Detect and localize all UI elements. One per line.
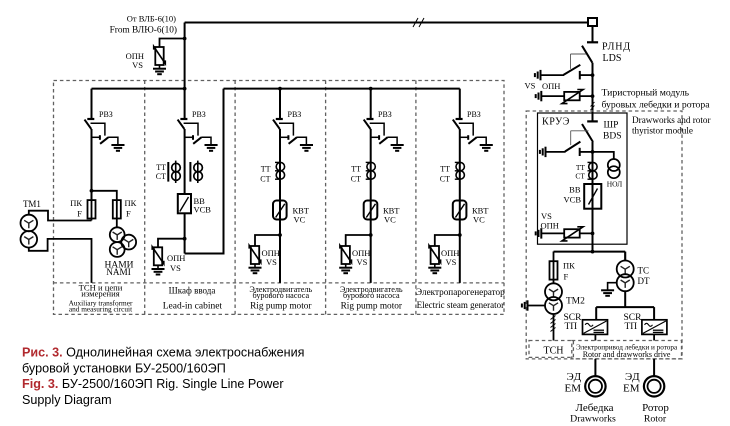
motor ЭД EM (drawworks) xyxy=(585,376,605,396)
svg-text:DT: DT xyxy=(638,276,650,286)
vacuum contactor КВТ VC (steam) xyxy=(453,201,467,220)
label section pump2 xyxy=(340,285,403,312)
node: junction dot arrester tap (steam) xyxy=(458,233,462,237)
svg-text:Drawworks and rotor: Drawworks and rotor xyxy=(632,115,711,125)
wire: to rotor motor xyxy=(653,359,655,376)
surge arrester ОПН VS horizontal (line side) xyxy=(536,90,593,104)
svg-text:СТ: СТ xyxy=(260,175,270,184)
svg-text:From ВЛЮ-6(10): From ВЛЮ-6(10) xyxy=(110,25,177,36)
label РВЗ (TCH) xyxy=(99,110,113,119)
svg-text:КРУЭ: КРУЭ xyxy=(542,117,570,128)
svg-text:ТП: ТП xyxy=(565,322,578,332)
svg-text:ТС: ТС xyxy=(638,266,650,276)
wire: TM1 secondary to measuring circuit xyxy=(29,239,92,283)
svg-text:ТТ: ТТ xyxy=(261,165,271,174)
wire: tap to НОЛ xyxy=(593,152,614,159)
current transformer ТТ СТ (pump2) xyxy=(366,162,376,179)
thyristor module dashed enclosure xyxy=(526,111,682,359)
caption figure text xyxy=(22,346,304,408)
current transformer ТТ СТ (steam) xyxy=(455,162,465,179)
ТСН dashed box xyxy=(529,341,573,358)
current transformer ТТ СТ (КРУЭ) xyxy=(588,162,598,179)
transformer TM1 lower winding xyxy=(21,231,38,248)
transformer ТМ2 upper winding xyxy=(545,283,562,300)
wire: TCH feeder drop xyxy=(91,89,93,200)
svg-text:ПК: ПК xyxy=(70,198,82,208)
fuse ПК F (left, to TM1) xyxy=(88,200,96,218)
svg-text:VC: VC xyxy=(384,215,396,225)
section separator dashed line 3 xyxy=(325,81,327,315)
node: junction dot at arrester tap xyxy=(183,37,187,41)
wire: into ШР switch xyxy=(592,113,594,121)
node: junction dot VCB output / arrester tap xyxy=(183,237,187,241)
label РВЗ (lead-in) xyxy=(192,110,206,119)
wire: earthing switch to main line xyxy=(580,74,593,76)
svg-text:VS: VS xyxy=(170,263,181,273)
wire: branch to fuse 2 xyxy=(92,191,117,200)
wire through fuse2 down to НАМИ xyxy=(116,200,118,228)
wire: tap to lead-in arrester xyxy=(158,239,185,248)
wire: steam feeder line xyxy=(459,89,461,283)
current transformer ТТ СТ (left of line) xyxy=(168,161,180,183)
disconnector РВЗ (TCH feeder) xyxy=(85,119,125,151)
disconnector РВЗ (steam) xyxy=(453,119,493,151)
svg-text:ШР: ШР xyxy=(604,121,619,131)
wire: left branch to fuse xyxy=(553,252,555,284)
svg-text:измерения: измерения xyxy=(81,289,119,299)
КРУЭ switchgear solid box xyxy=(538,113,628,244)
label row dashed line xyxy=(54,282,505,284)
label НОЛ xyxy=(607,180,623,189)
label ТТ СТ (pump2) xyxy=(351,165,361,184)
label ОПН VS (incoming) xyxy=(126,51,144,70)
svg-text:Lead-in cabinet: Lead-in cabinet xyxy=(163,302,223,312)
svg-text:VS: VS xyxy=(132,60,143,70)
svg-text:бурового насоса: бурового насоса xyxy=(343,291,400,300)
svg-text:ПК: ПК xyxy=(563,261,575,271)
wire: DT neutral to ground xyxy=(608,283,617,290)
svg-text:VS: VS xyxy=(525,81,536,91)
wire: main incoming vertical drop xyxy=(184,23,186,89)
voltage transformer НАМИ winding 3 xyxy=(121,235,136,250)
surge arrester ОПН VS (steam) xyxy=(428,245,441,273)
wire: fuse1 to TM1 primary xyxy=(29,211,92,221)
svg-text:СТ: СТ xyxy=(440,175,450,184)
label КВТ VC (steam) xyxy=(472,206,489,225)
wire: lead-in feeder drop xyxy=(184,89,186,194)
label section steam generator xyxy=(416,287,505,310)
wire: earthing contact to main xyxy=(580,151,593,153)
drive label dashed box xyxy=(572,341,682,359)
svg-text:СТ: СТ xyxy=(351,175,361,184)
section separator dashed line 4 xyxy=(415,81,417,315)
ground (side) at ТМ2 xyxy=(522,300,528,310)
svg-text:LDS: LDS xyxy=(603,53,622,64)
label ОПН VS (lead-in) xyxy=(167,253,185,273)
svg-text:and measuring circuit: and measuring circuit xyxy=(69,305,132,314)
node: junction dot arrester tap (pump1) xyxy=(278,233,282,237)
label section pump1 xyxy=(249,285,312,312)
svg-text:VCB: VCB xyxy=(194,205,212,215)
label ТТ СТ (steam) xyxy=(440,165,450,184)
label РЛНД LDS xyxy=(602,42,631,65)
ground (side) for ШР earthing switch xyxy=(540,147,546,157)
transformer ТС DT upper winding xyxy=(617,261,634,278)
vacuum circuit breaker ВВ VCB (lead-in) xyxy=(178,194,191,213)
svg-text:Fig. 3. БУ-2500/160ЭП Rig. Sin: Fig. 3. БУ-2500/160ЭП Rig. Single Line P… xyxy=(22,377,284,391)
current transformer ТТ СТ (pump1) xyxy=(275,162,285,179)
svg-text:ОПН: ОПН xyxy=(542,81,560,91)
label section Шкаф ввода xyxy=(163,285,223,311)
svg-text:thyristor module: thyristor module xyxy=(632,126,693,136)
wire: to drawworks motor xyxy=(594,359,596,376)
thyristor converter SCR ТП (rotor) xyxy=(642,320,667,335)
svg-text:ВВ: ВВ xyxy=(569,185,581,195)
svg-text:НОЛ: НОЛ xyxy=(607,180,623,189)
svg-text:Ротор: Ротор xyxy=(642,402,669,414)
vacuum contactor КВТ VC (pump1) xyxy=(273,201,287,220)
terminal square at end of top bus xyxy=(588,18,597,26)
svg-text:ЭД: ЭД xyxy=(567,371,582,383)
label РВЗ (steam) xyxy=(467,110,481,119)
wire: left bus segment inside cabinet xyxy=(92,88,185,90)
svg-text:буровой установки БУ-2500/160Э: буровой установки БУ-2500/160ЭП xyxy=(22,362,226,376)
label ТСН xyxy=(544,346,564,357)
disconnector РВЗ (pump2) xyxy=(364,119,404,151)
label ТТ СТ (lead-in) xyxy=(156,163,166,181)
motor ЭД EM (rotor) xyxy=(644,376,664,396)
vacuum contactor КВТ VC (pump2) xyxy=(364,201,378,220)
node: junction dot output split xyxy=(591,250,595,254)
svg-text:буровых лебедки и ротора: буровых лебедки и ротора xyxy=(602,100,711,111)
label ОПН VS (pump1) xyxy=(262,248,280,267)
voltage transformer НАМИ winding 1 xyxy=(110,227,125,242)
svg-text:От ВЛБ-6(10): От ВЛБ-6(10) xyxy=(127,14,176,24)
svg-text:Лебедка: Лебедка xyxy=(575,402,613,414)
label ПК F (ТМ2) xyxy=(563,261,575,282)
svg-text:ТСН: ТСН xyxy=(544,346,564,357)
surge arrester VS (incoming) xyxy=(153,46,166,74)
label КВТ VC (pump2) xyxy=(383,206,400,225)
node: junction dot КРУЭ arrester xyxy=(591,232,595,236)
svg-text:VC: VC xyxy=(294,215,306,225)
wire: earthing switch wire to side ground xyxy=(541,74,565,76)
label Drawworks and rotor thyristor module xyxy=(632,115,711,136)
wire: riser from VCB output to right bus xyxy=(185,89,224,254)
thyristor converter SCR ТП (drawworks) xyxy=(583,320,608,335)
svg-text:Supply Diagram: Supply Diagram xyxy=(22,393,112,407)
svg-text:Electric steam generator: Electric steam generator xyxy=(417,300,504,310)
label SCR ТП (drawworks) xyxy=(564,313,583,332)
node: junction dot earthing switch xyxy=(591,73,595,77)
node: junction dot bus / pump1 xyxy=(278,87,282,91)
wire: tap to incoming surge arrester xyxy=(160,39,185,48)
label ВВ VCB (lead-in) xyxy=(194,196,212,215)
svg-text:F: F xyxy=(564,272,569,282)
svg-text:бурового насоса: бурового насоса xyxy=(252,291,309,300)
label ВВ VCB (КРУЭ) xyxy=(564,185,582,205)
svg-text:VS: VS xyxy=(357,257,368,267)
svg-text:F: F xyxy=(126,209,131,219)
surge arrester ОПН VS (pump1) xyxy=(249,245,262,273)
svg-text:Rig pump motor: Rig pump motor xyxy=(341,302,403,312)
label SCR ТП (rotor) xyxy=(624,313,643,332)
node: incoming line label xyxy=(110,14,177,36)
svg-text:РВЗ: РВЗ xyxy=(467,110,481,119)
wire: from terminal down to РЛНД xyxy=(592,26,594,42)
wire: right bus segment inside cabinet xyxy=(224,88,460,90)
label РВЗ (pump1) xyxy=(288,110,302,119)
label ЭД ЕМ (drawworks) xyxy=(565,371,583,395)
ground at ТС DT xyxy=(601,290,614,296)
node: junction dot bus / pump2 xyxy=(369,87,373,91)
ground (side) for РЛНД earthing switch xyxy=(535,70,541,80)
fuse ПК F (right, to НАМИ) xyxy=(113,200,121,218)
wire: right branch to ТС DT xyxy=(624,252,626,261)
wire: pump1 feeder line xyxy=(279,89,281,283)
label ТТ СТ (pump1) xyxy=(260,165,270,184)
svg-text:NAMI: NAMI xyxy=(106,267,131,277)
svg-text:ЭД: ЭД xyxy=(625,371,640,383)
wire: РЛНД main vertical down xyxy=(592,63,594,122)
svg-text:РВЗ: РВЗ xyxy=(192,110,206,119)
wire: КРУЭ main vertical xyxy=(592,142,594,244)
section separator dashed line 1 xyxy=(144,81,146,315)
wire through fuse1 xyxy=(91,200,93,221)
wire: tap to arrester (pump2) xyxy=(346,235,371,246)
transformer ТМ2 lower winding xyxy=(545,297,562,314)
label ТМ2 xyxy=(566,297,585,307)
svg-text:ТМ1: ТМ1 xyxy=(23,199,41,209)
disconnector РВЗ (lead-in) xyxy=(178,119,218,151)
cable hatch marks below arrester xyxy=(591,102,595,110)
node: junction dot arrester xyxy=(591,94,595,98)
svg-text:ТТ: ТТ xyxy=(156,163,166,172)
svg-text:ОПН: ОПН xyxy=(541,221,559,231)
label Электропривод лебедки и ротора xyxy=(576,344,678,360)
svg-text:ОПН: ОПН xyxy=(167,253,185,263)
label ЭД ЕМ (rotor) xyxy=(623,371,641,395)
label Ротор Rotor xyxy=(642,402,669,425)
voltage transformer НАМИ winding 2 xyxy=(110,242,125,257)
surge arrester horizontal (КРУЭ) xyxy=(536,227,593,241)
label VS ОПН (line side) xyxy=(525,81,561,92)
disconnector РЛНД LDS xyxy=(564,42,599,79)
voltage transformer НОЛ winding 2 xyxy=(608,166,620,178)
svg-text:ЕМ: ЕМ xyxy=(565,383,582,395)
label ТТ СТ (КРУЭ) xyxy=(575,163,585,181)
fuse ПК F (ТМ2) xyxy=(550,261,558,279)
surge arrester ОПН VS (lead-in) xyxy=(152,247,165,275)
label section ТСН xyxy=(69,283,133,314)
label ПК F (left fuse) xyxy=(70,198,82,219)
svg-text:Шкаф ввода: Шкаф ввода xyxy=(169,285,216,295)
node: junction dot bus / main vertical xyxy=(183,87,187,91)
label ТМ1 xyxy=(23,199,41,209)
node: junction dot TCH tee xyxy=(90,189,94,193)
wire: tap to arrester (steam) xyxy=(435,235,460,246)
svg-text:ТТ: ТТ xyxy=(351,165,361,174)
label РВЗ (pump2) xyxy=(378,110,392,119)
svg-text:ТМ2: ТМ2 xyxy=(566,297,585,307)
svg-text:VS: VS xyxy=(541,211,552,221)
node: junction dot ШР earthing / НОЛ tap xyxy=(591,150,595,154)
vacuum circuit breaker ВВ VCB (КРУЭ) xyxy=(584,184,601,209)
svg-text:РВЗ: РВЗ xyxy=(288,110,302,119)
section separator dashed line 2 xyxy=(234,81,236,315)
node: junction dot arrester tap (pump2) xyxy=(369,233,373,237)
svg-text:VS: VS xyxy=(446,257,457,267)
svg-text:Rig pump motor: Rig pump motor xyxy=(250,302,312,312)
label ОПН VS (pump2) xyxy=(352,248,370,267)
svg-text:СТ: СТ xyxy=(575,172,585,181)
svg-text:Rotor and drawworks drive: Rotor and drawworks drive xyxy=(583,350,671,359)
wire: SCR outputs down xyxy=(595,334,654,340)
transformer TM1 upper winding xyxy=(21,215,38,232)
label Лебедка Drawworks xyxy=(570,402,616,425)
label VS ОПН (КРУЭ) xyxy=(541,211,559,231)
transformer ТС DT lower winding xyxy=(617,274,634,291)
svg-text:ТП: ТП xyxy=(625,322,638,332)
svg-text:ТТ: ТТ xyxy=(440,165,450,174)
surge arrester ОПН VS (pump2) xyxy=(339,245,352,273)
svg-text:VC: VC xyxy=(473,215,485,225)
svg-text:РВЗ: РВЗ xyxy=(378,110,392,119)
left cabinet dashed enclosure xyxy=(54,81,505,315)
svg-text:Электропарогенератор: Электропарогенератор xyxy=(416,287,505,297)
wire: DT output to SCR converters xyxy=(596,291,654,320)
wire: pump2 feeder line xyxy=(370,89,372,283)
label ШР BDS xyxy=(603,121,621,142)
switch ШР BDS xyxy=(565,121,598,156)
svg-text:РВЗ: РВЗ xyxy=(99,110,113,119)
label КВТ VC (pump1) xyxy=(293,206,310,225)
dashed wire: ТМ2 secondary down to ТСН xyxy=(551,314,556,341)
label ТС DT xyxy=(638,266,650,287)
wire: КРУЭ output split xyxy=(554,244,626,260)
svg-text:Тиристорный модуль: Тиристорный модуль xyxy=(602,88,690,99)
svg-text:Рис. 3. Однолинейная схема эле: Рис. 3. Однолинейная схема электроснабже… xyxy=(22,346,304,360)
svg-text:VS: VS xyxy=(266,257,277,267)
svg-text:ЕМ: ЕМ xyxy=(623,383,640,395)
overhead line hatch marks on top bus xyxy=(413,18,424,27)
wire: VCB output down xyxy=(184,213,186,253)
wire: ТМ2 to side ground xyxy=(528,305,546,307)
svg-text:СТ: СТ xyxy=(156,172,166,181)
svg-text:РЛНД: РЛНД xyxy=(602,42,631,53)
disconnector РВЗ (pump1) xyxy=(273,119,313,151)
svg-text:Rotor: Rotor xyxy=(644,414,667,425)
current transformer ТТ СТ (right of line) xyxy=(190,161,202,183)
svg-text:BDS: BDS xyxy=(603,132,621,142)
label ПК F (right fuse) xyxy=(125,198,137,219)
label НАМИ NAMI xyxy=(104,261,133,278)
label Тиристорный модуль xyxy=(602,88,711,111)
svg-text:ПК: ПК xyxy=(125,198,137,208)
wire: top incoming bus xyxy=(185,22,588,24)
label КРУЭ xyxy=(542,117,570,128)
svg-text:Drawworks: Drawworks xyxy=(570,414,616,425)
label ОПН VS (steam) xyxy=(441,248,459,267)
svg-text:VCB: VCB xyxy=(564,195,582,205)
svg-text:F: F xyxy=(77,209,82,219)
voltage transformer НОЛ winding 1 xyxy=(608,159,620,171)
wire: tap to arrester (pump1) xyxy=(255,235,280,246)
wire: ШР earthing to side ground xyxy=(546,151,566,153)
